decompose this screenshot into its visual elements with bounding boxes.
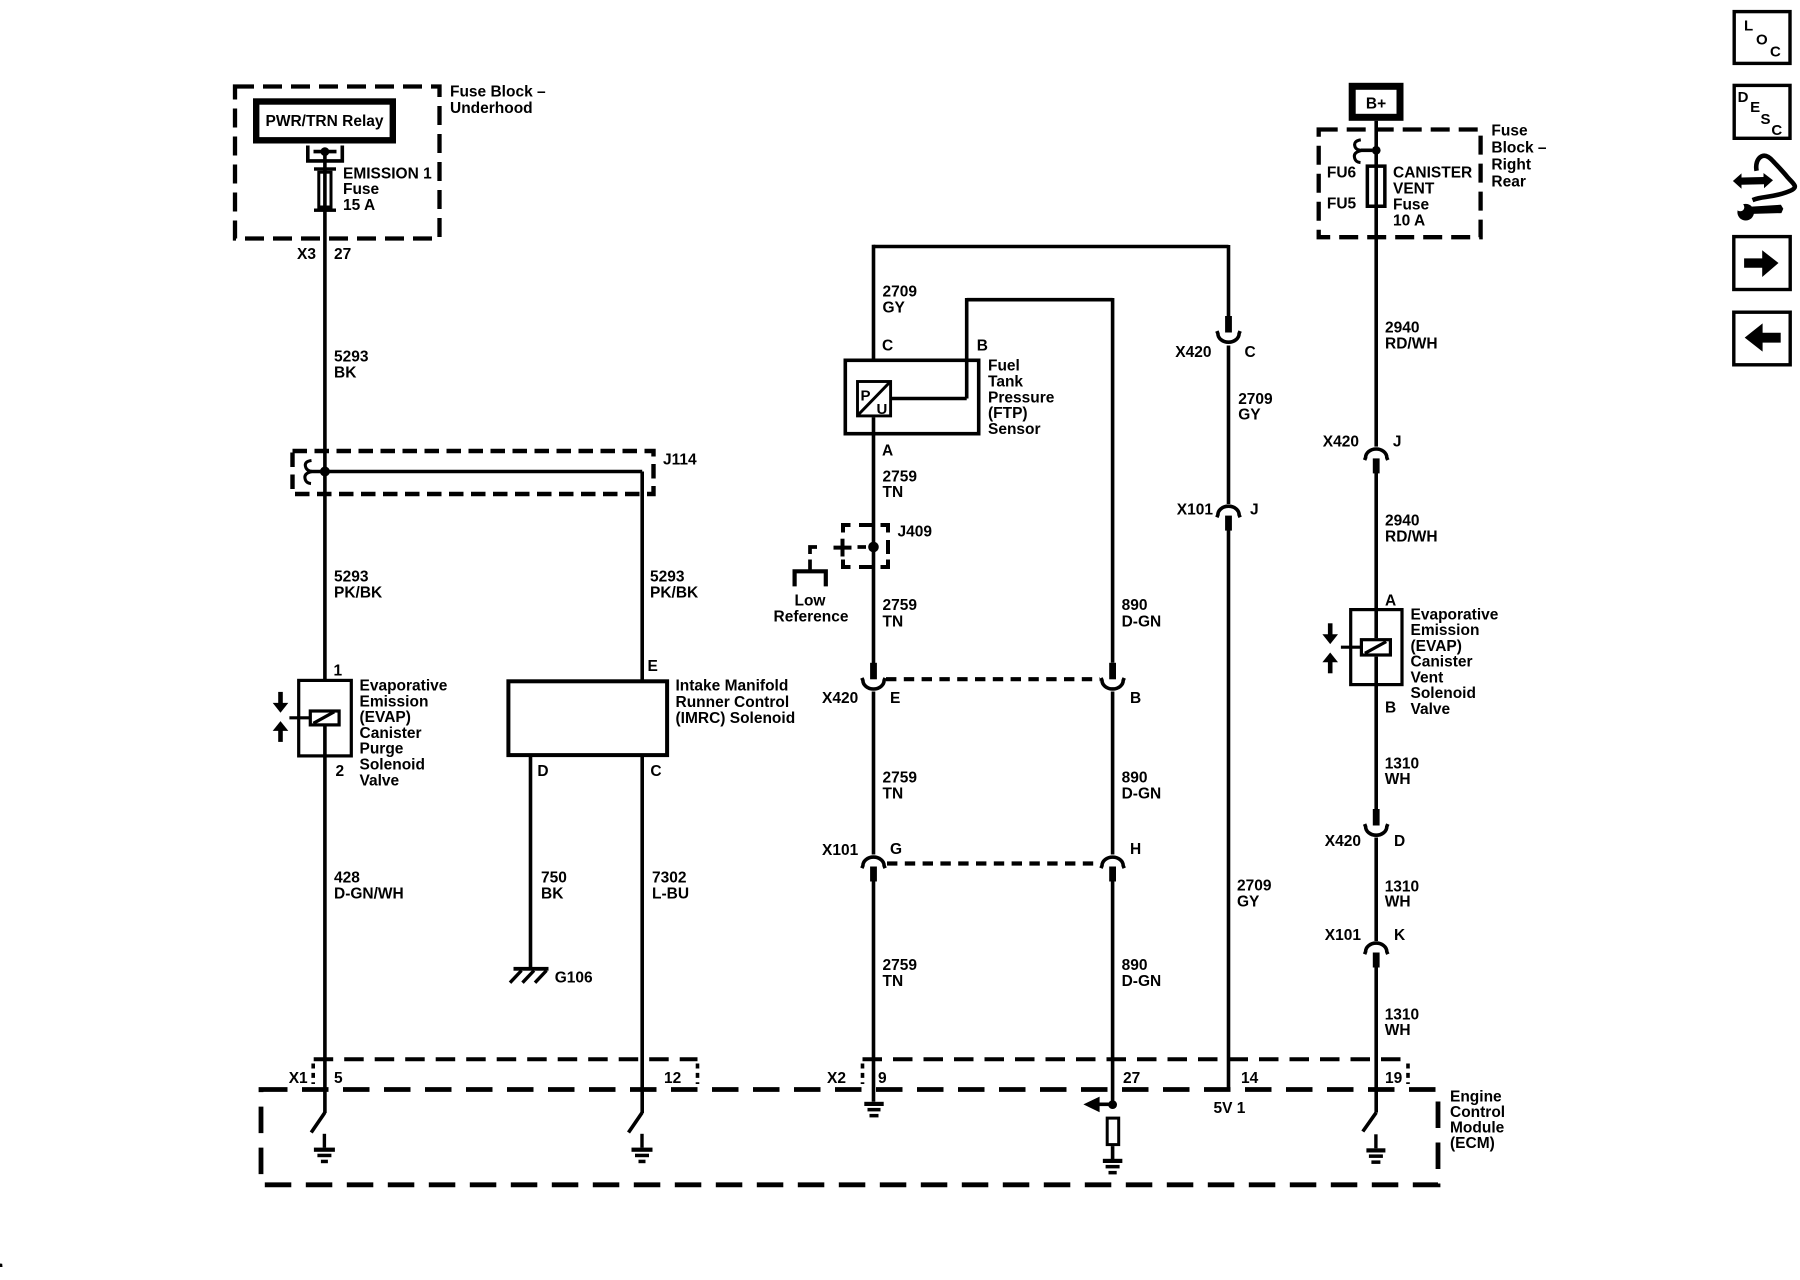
svg-text:G106: G106	[555, 970, 593, 987]
nav icon forward arrow box	[1734, 237, 1790, 290]
svg-text:FU6: FU6	[1327, 165, 1357, 182]
svg-text:Vent: Vent	[1411, 669, 1444, 686]
svg-text:P: P	[861, 388, 871, 405]
svg-text:2759: 2759	[883, 957, 918, 974]
solenoid diagonal	[313, 712, 334, 724]
ground ECM pin 5	[314, 1134, 335, 1163]
svg-text:2759: 2759	[883, 469, 918, 486]
wire relay to fuse F1	[323, 152, 327, 168]
wire 1310 WH to ECM pin 19	[1374, 967, 1378, 1113]
relay pin bar	[314, 150, 337, 154]
vent valve actuator arrows	[1322, 623, 1338, 673]
svg-text:Canister: Canister	[1411, 654, 1473, 671]
svg-text:750: 750	[541, 870, 567, 887]
svg-text:Solenoid: Solenoid	[360, 757, 425, 774]
svg-text:S: S	[1761, 111, 1771, 128]
svg-text:7302: 7302	[652, 870, 686, 887]
connector X420 D	[1365, 809, 1388, 835]
svg-text:Fuse: Fuse	[1393, 197, 1430, 214]
solenoid coil rect	[310, 711, 339, 725]
fuse F1 EMISSION 1 15A	[314, 167, 336, 212]
wire 2759 TN to X101 G	[872, 692, 876, 855]
nav icon DESC box	[1734, 85, 1790, 138]
vent valve stub	[1341, 646, 1361, 649]
svg-text:WH: WH	[1385, 771, 1411, 788]
svg-text:Fuse: Fuse	[343, 181, 380, 198]
FTP sensor P/U transducer symbol	[858, 382, 891, 419]
svg-text:TN: TN	[883, 786, 904, 803]
wire 890 D-GN horizontal	[967, 298, 1113, 302]
svg-text:X101: X101	[1325, 927, 1362, 944]
svg-text:1310: 1310	[1385, 756, 1419, 773]
svg-text:D: D	[1738, 89, 1749, 106]
svg-text:Evaporative: Evaporative	[360, 678, 448, 695]
svg-text:J409: J409	[898, 524, 933, 541]
svg-text:PK/BK: PK/BK	[650, 585, 699, 602]
wire through fuse	[323, 170, 327, 209]
wire 2759 TN to ECM pin 9	[872, 881, 876, 1102]
wire 890 D-GN to ECM pin 27	[1111, 881, 1115, 1105]
svg-text:X101: X101	[822, 842, 859, 859]
svg-text:5293: 5293	[334, 349, 369, 366]
svg-text:E: E	[648, 658, 658, 675]
svg-text:Sensor: Sensor	[988, 421, 1041, 438]
svg-text:Valve: Valve	[360, 772, 400, 789]
svg-text:Fuel: Fuel	[988, 358, 1020, 375]
svg-text:E: E	[890, 690, 900, 707]
svg-text:K: K	[1394, 927, 1406, 944]
svg-text:L-BU: L-BU	[652, 886, 689, 903]
svg-text:1310: 1310	[1385, 1007, 1419, 1024]
wire FTP B inside box	[892, 397, 967, 401]
svg-text:2940: 2940	[1385, 319, 1419, 336]
svg-text:(IMRC) Solenoid: (IMRC) Solenoid	[676, 710, 796, 727]
svg-text:2940: 2940	[1385, 513, 1419, 530]
svg-text:890: 890	[1122, 957, 1148, 974]
svg-text:X101: X101	[1177, 502, 1214, 519]
junction splice J114	[320, 467, 330, 477]
signal arrow to other circuit	[1097, 1103, 1113, 1107]
connector tie line X420 E-B	[886, 677, 1100, 681]
EVAP canister purge solenoid valve box	[299, 680, 352, 756]
splice pigtail curl B+	[1354, 140, 1361, 163]
svg-text:(EVAP): (EVAP)	[360, 709, 411, 726]
svg-text:10 A: 10 A	[1393, 213, 1425, 230]
connector row X1	[314, 1057, 698, 1061]
svg-text:Control: Control	[1450, 1104, 1505, 1121]
svg-text:14: 14	[1241, 1070, 1259, 1087]
connector X101 G	[862, 857, 885, 881]
vent solenoid coil rect	[1361, 640, 1390, 655]
wire 2940 RD/WH 2	[1374, 473, 1378, 609]
wire 428 D-GN/WH down to ECM pin 5	[323, 727, 327, 1114]
low reference dashed wire	[810, 547, 866, 571]
svg-text:WH: WH	[1385, 1022, 1411, 1039]
fuse block - underhood dashed box	[235, 87, 440, 239]
svg-text:D-GN: D-GN	[1122, 613, 1162, 630]
svg-text:(ECM): (ECM)	[1450, 1135, 1495, 1152]
svg-text:GY: GY	[1238, 407, 1261, 424]
svg-text:C: C	[1770, 43, 1781, 60]
svg-text:H: H	[1130, 841, 1141, 858]
svg-text:890: 890	[1122, 597, 1148, 614]
wire 2709 GY to ECM pin 14	[1227, 531, 1231, 1090]
connector X420 E	[862, 663, 885, 689]
wire B+ to fuse	[1374, 121, 1378, 165]
svg-text:Valve: Valve	[1411, 701, 1451, 718]
wire 2709 GY to X101 J	[1227, 346, 1231, 505]
svg-text:27: 27	[1123, 1070, 1140, 1087]
low reference terminal symbol	[795, 571, 826, 586]
svg-text:D: D	[1394, 833, 1405, 850]
splice stub	[1361, 149, 1372, 153]
connector X420 B	[1101, 663, 1124, 689]
ECM driver switch pin 19	[1363, 1113, 1376, 1132]
svg-text:J: J	[1250, 502, 1259, 519]
svg-text:G: G	[890, 841, 902, 858]
wire 5293 BK/PK-BK vertical	[323, 212, 327, 710]
relay pin cradle	[308, 146, 343, 161]
IMRC solenoid box	[508, 681, 667, 755]
splice cross h	[834, 546, 852, 550]
svg-text:1: 1	[334, 663, 343, 680]
wire 2940 RD/WH	[1374, 208, 1378, 447]
svg-text:Engine: Engine	[1450, 1089, 1502, 1106]
svg-text:Underhood: Underhood	[450, 100, 533, 117]
power feed B+ box	[1352, 86, 1400, 117]
svg-text:2709: 2709	[883, 284, 918, 301]
ECM dashed box	[261, 1090, 1438, 1185]
svg-text:Pressure: Pressure	[988, 389, 1055, 406]
svg-text:RD/WH: RD/WH	[1385, 336, 1438, 353]
svg-text:Right: Right	[1491, 157, 1531, 174]
wire 890 D-GN down to X420 B	[1111, 298, 1115, 663]
svg-text:BK: BK	[541, 886, 564, 903]
svg-text:X2: X2	[827, 1070, 846, 1087]
fuse F2 CANISTER VENT 10A	[1367, 166, 1385, 206]
svg-text:D-GN/WH: D-GN/WH	[334, 886, 404, 903]
svg-text:12: 12	[664, 1070, 681, 1087]
svg-text:PWR/TRN Relay: PWR/TRN Relay	[266, 113, 384, 130]
svg-text:5293: 5293	[334, 569, 369, 586]
fuse block - right rear dashed box	[1319, 130, 1481, 238]
junction B+ splice	[1372, 146, 1381, 155]
svg-text:19: 19	[1385, 1070, 1403, 1087]
wire inside vent box top	[1374, 608, 1378, 638]
svg-text:BK: BK	[334, 365, 357, 382]
wire 2709 GY top horizontal	[874, 245, 1229, 249]
svg-text:Tank: Tank	[988, 373, 1023, 390]
junction splice J409 dot	[868, 542, 879, 553]
svg-text:Block –: Block –	[1491, 140, 1547, 157]
wire 1310 WH 2	[1374, 838, 1378, 942]
svg-text:2759: 2759	[883, 597, 918, 614]
svg-text:27: 27	[334, 246, 351, 263]
svg-text:Rear: Rear	[1491, 174, 1525, 191]
svg-text:X420: X420	[1325, 833, 1361, 850]
valve stub	[289, 716, 309, 719]
svg-text:B: B	[977, 338, 988, 355]
svg-text:2: 2	[336, 763, 345, 780]
svg-text:A: A	[882, 443, 893, 460]
svg-text:D: D	[537, 763, 548, 780]
junction pin 27	[1108, 1100, 1117, 1109]
wire 750 BK to G106	[529, 757, 533, 968]
svg-text:15 A: 15 A	[343, 197, 375, 214]
svg-text:5: 5	[334, 1070, 343, 1087]
svg-text:PK/BK: PK/BK	[334, 585, 383, 602]
svg-text:X3: X3	[297, 246, 316, 263]
FTP sensor box	[845, 360, 978, 433]
svg-text:(FTP): (FTP)	[988, 405, 1028, 422]
svg-text:B+: B+	[1366, 96, 1386, 113]
svg-text:D-GN: D-GN	[1122, 973, 1162, 990]
svg-text:EMISSION 1: EMISSION 1	[343, 166, 432, 183]
splice J114 dashed box	[293, 451, 654, 494]
svg-text:Solenoid: Solenoid	[1411, 685, 1476, 702]
svg-text:B: B	[1385, 700, 1396, 717]
page artifact speck bottom-left	[0, 1264, 3, 1268]
wire 2709 GY down to X420 C	[1227, 245, 1231, 317]
svg-text:L: L	[1744, 18, 1753, 35]
svg-text:Purge: Purge	[360, 741, 404, 758]
relay K (PWR/TRN Relay) box	[256, 102, 393, 141]
ground ECM pin 12	[632, 1134, 653, 1163]
EVAP canister vent solenoid valve box	[1351, 610, 1402, 685]
svg-text:C: C	[882, 338, 893, 355]
connector X101 J	[1217, 506, 1240, 530]
wire 2759 TN from FTP A down	[872, 417, 876, 663]
svg-text:CANISTER: CANISTER	[1393, 165, 1472, 182]
wire through fuse F2	[1374, 166, 1378, 208]
wire 5293 PK/BK down to IMRC E	[640, 472, 644, 680]
wire resistor to ground	[1111, 1146, 1115, 1159]
splice cross v	[841, 539, 845, 557]
svg-text:GY: GY	[1237, 894, 1260, 911]
svg-text:X420: X420	[822, 690, 858, 707]
wire FTP B up	[965, 298, 969, 399]
connector X420 J	[1365, 449, 1388, 473]
ECM driver switch pin 12	[629, 1113, 643, 1133]
svg-text:B: B	[1130, 690, 1141, 707]
resistor R inside ECM	[1107, 1118, 1119, 1145]
svg-text:Intake Manifold: Intake Manifold	[676, 678, 789, 695]
valve actuator arrows	[273, 692, 289, 742]
svg-text:5V 1: 5V 1	[1214, 1100, 1246, 1117]
svg-text:Low: Low	[795, 593, 827, 610]
svg-text:GY: GY	[883, 300, 906, 317]
svg-text:5293: 5293	[650, 569, 685, 586]
svg-text:X420: X420	[1175, 344, 1211, 361]
connector row X2	[863, 1057, 1404, 1061]
junction relay pin	[321, 147, 330, 156]
svg-text:Canister: Canister	[360, 725, 422, 742]
svg-text:2759: 2759	[883, 770, 918, 787]
svg-text:Emission: Emission	[1411, 622, 1480, 639]
svg-text:Runner Control: Runner Control	[676, 694, 790, 711]
svg-text:Evaporative: Evaporative	[1411, 607, 1499, 624]
wire 7302 L-BU to ECM pin 12	[640, 757, 644, 1113]
svg-text:C: C	[1245, 344, 1256, 361]
splice J409 dashed box	[843, 525, 888, 567]
wire vent B to X420 D	[1374, 657, 1378, 810]
svg-text:2709: 2709	[1238, 391, 1273, 408]
svg-text:Fuse Block –: Fuse Block –	[450, 84, 546, 101]
svg-text:C: C	[650, 763, 661, 780]
svg-text:TN: TN	[883, 484, 904, 501]
svg-text:RD/WH: RD/WH	[1385, 529, 1438, 546]
connector tie line X101 G-H	[887, 861, 1100, 865]
svg-text:J114: J114	[663, 452, 697, 469]
svg-text:J: J	[1393, 434, 1402, 451]
ground ECM pin 27	[1103, 1159, 1123, 1175]
connector X420 C	[1217, 316, 1240, 342]
svg-text:2709: 2709	[1237, 878, 1272, 895]
svg-text:TN: TN	[883, 613, 904, 630]
vent solenoid diagonal	[1365, 642, 1386, 654]
svg-text:890: 890	[1122, 770, 1148, 787]
svg-text:TN: TN	[883, 973, 904, 990]
connector X101 H	[1101, 857, 1124, 881]
svg-text:FU5: FU5	[1327, 196, 1357, 213]
svg-text:Module: Module	[1450, 1120, 1505, 1137]
svg-text:VENT: VENT	[1393, 181, 1435, 198]
ECM driver switch pin 5	[311, 1113, 325, 1133]
ground G106 chassis	[510, 967, 549, 983]
svg-text:9: 9	[878, 1070, 887, 1087]
svg-text:C: C	[1771, 122, 1782, 139]
svg-text:A: A	[1385, 593, 1396, 610]
nav icon back arrow box	[1734, 312, 1790, 365]
svg-text:E: E	[1750, 99, 1760, 116]
splice pigtail curl	[305, 461, 312, 484]
svg-text:Emission: Emission	[360, 693, 429, 710]
svg-text:Reference: Reference	[774, 608, 849, 625]
wire splice to IMRC	[311, 470, 642, 474]
nav icon tools (arrow + wrench)	[1730, 156, 1794, 221]
svg-text:D-GN: D-GN	[1122, 786, 1162, 803]
ground ECM pin 9	[864, 1102, 883, 1118]
svg-text:O: O	[1756, 32, 1768, 49]
svg-text:X1: X1	[289, 1070, 308, 1087]
svg-text:U: U	[877, 401, 888, 418]
connector X101 K	[1365, 943, 1388, 967]
ground ECM pin 19	[1366, 1134, 1385, 1164]
svg-text:428: 428	[334, 870, 360, 887]
wire 2709 GY down to FTP C	[872, 245, 876, 380]
svg-text:(EVAP): (EVAP)	[1411, 638, 1462, 655]
wire 890 D-GN to X101 H	[1111, 692, 1115, 855]
svg-text:X420: X420	[1323, 434, 1359, 451]
svg-text:Fuse: Fuse	[1491, 123, 1528, 140]
nav icon LOC box	[1734, 12, 1790, 64]
svg-text:WH: WH	[1385, 894, 1411, 911]
